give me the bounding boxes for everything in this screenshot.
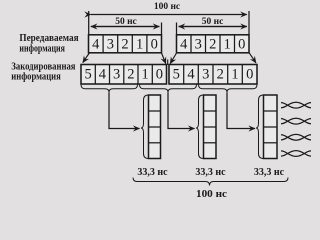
svg-text:4: 4 <box>180 36 188 52</box>
svg-text:3: 3 <box>113 66 120 82</box>
svg-text:3: 3 <box>202 66 209 82</box>
svg-text:100 нс: 100 нс <box>154 2 180 12</box>
svg-text:5: 5 <box>84 66 91 82</box>
svg-text:4: 4 <box>92 36 100 52</box>
svg-text:3: 3 <box>107 36 114 52</box>
svg-text:1: 1 <box>231 66 238 82</box>
svg-text:информация: информация <box>19 43 65 54</box>
svg-text:2: 2 <box>209 36 216 52</box>
svg-text:1: 1 <box>141 66 148 82</box>
svg-text:4: 4 <box>187 66 195 82</box>
svg-text:5: 5 <box>173 66 180 82</box>
svg-text:1: 1 <box>224 36 231 52</box>
svg-text:33,3 нс: 33,3 нс <box>254 167 285 178</box>
svg-text:информация: информация <box>11 71 61 82</box>
svg-text:3: 3 <box>195 36 202 52</box>
svg-text:2: 2 <box>127 66 134 82</box>
svg-text:1: 1 <box>136 36 143 52</box>
svg-text:0: 0 <box>238 36 245 52</box>
svg-text:50 нс: 50 нс <box>202 17 224 27</box>
svg-text:0: 0 <box>246 66 253 82</box>
svg-text:50 нс: 50 нс <box>115 17 137 27</box>
svg-text:0: 0 <box>156 66 163 82</box>
svg-text:100 нс: 100 нс <box>196 188 227 198</box>
svg-text:2: 2 <box>217 66 224 82</box>
svg-text:0: 0 <box>151 36 158 52</box>
svg-text:33,3 нс: 33,3 нс <box>137 167 168 178</box>
svg-text:33,3 нс: 33,3 нс <box>195 167 226 178</box>
svg-text:2: 2 <box>121 36 128 52</box>
svg-text:4: 4 <box>99 66 107 82</box>
svg-text:Передаваемая: Передаваемая <box>19 33 78 44</box>
